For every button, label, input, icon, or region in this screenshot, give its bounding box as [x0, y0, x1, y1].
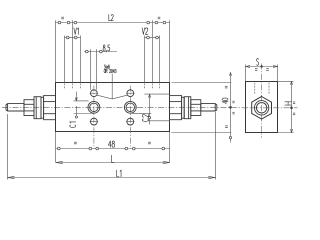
extension body left edge top [55, 20, 57, 82]
left adjustment screw stem [6, 104, 24, 111]
equality mark right [158, 16, 161, 18]
right gland [184, 97, 191, 119]
V1 port hidden dashes [64, 84, 66, 90]
V2 dimension [145, 37, 160, 39]
48 dimension line [56, 148, 170, 150]
chevron connecting seats [97, 95, 128, 99]
hole column centerline left [93, 86, 95, 149]
C1 cavity dimension [75, 92, 77, 101]
side view vertical centerline [261, 64, 263, 138]
left hex cap [44, 96, 56, 120]
hex nut [252, 97, 272, 120]
right washer [182, 97, 185, 118]
valve body front view [56, 83, 170, 132]
equality mark 48 right [148, 141, 151, 143]
bottom-right seat circle [127, 118, 134, 125]
left washer [41, 97, 44, 118]
side view horizontal centerline [242, 107, 298, 109]
terminator circles top line [58, 21, 61, 24]
side view body [246, 82, 278, 133]
extension V1 centerline [72, 20, 74, 82]
left cavity circle [88, 101, 100, 113]
main horizontal centerline [2, 106, 242, 108]
leader from note to chevron [111, 74, 113, 99]
top-right seat circle [127, 90, 134, 97]
40 height dimension [172, 82, 232, 84]
bottom-left seat circle [91, 118, 98, 125]
V2 port hidden dashes [144, 84, 146, 90]
C2 cavity dimension [144, 93, 169, 95]
equality mark left [61, 16, 64, 18]
left gland [34, 97, 41, 119]
L dimension [56, 162, 170, 164]
right cavity circle [124, 101, 136, 113]
top-left seat circle [91, 90, 98, 97]
V1 dimension [65, 37, 81, 39]
label L2 [109, 15, 111, 21]
S dimension [246, 66, 278, 68]
extension body right edge top [169, 20, 171, 82]
hidden cavity lines [254, 83, 256, 94]
thread circles [254, 101, 268, 115]
equality mark 48 left [74, 141, 77, 143]
right adjustment screw stem [201, 104, 217, 111]
L1 dimension [8, 177, 216, 179]
hole column centerline right [129, 86, 131, 149]
note Sedi OR 2043 [104, 65, 105, 69]
8.5 dimension [84, 51, 117, 53]
right locknut [191, 100, 201, 116]
right hex cap [170, 96, 182, 120]
extension V2 centerline [151, 20, 153, 82]
left locknut [24, 100, 34, 116]
H dimension [278, 81, 294, 83]
top dimension line [56, 22, 170, 24]
label 48 [108, 141, 111, 147]
